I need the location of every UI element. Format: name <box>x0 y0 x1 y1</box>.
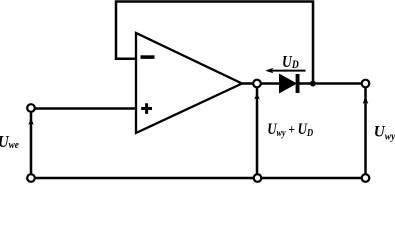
terminal output bottom <box>362 174 370 182</box>
label U_wy + U_D <box>267 121 313 139</box>
terminal input bottom <box>27 174 35 182</box>
U_D voltage arrow <box>265 68 305 74</box>
op-amp triangle body <box>136 33 242 133</box>
label U_wy <box>374 123 395 142</box>
wire op-amp output to diode <box>242 82 280 85</box>
U_wy voltage arrow <box>363 96 369 105</box>
terminal middle bottom <box>254 174 262 182</box>
op-amp <box>136 33 242 133</box>
op-amp output circle <box>253 80 261 88</box>
wire left input vertical <box>30 109 33 179</box>
label U_we <box>0 133 19 151</box>
diode D <box>280 74 300 93</box>
label U_D <box>282 53 299 72</box>
wire feedback left vertical <box>115 1 118 60</box>
svg-text:Uwy + UD: Uwy + UD <box>267 121 313 139</box>
wire diode cathode to output terminal <box>299 82 366 85</box>
U_we voltage arrow <box>28 118 34 125</box>
wire non-inverting input <box>31 107 137 110</box>
inverting input marker (-) <box>141 55 155 59</box>
wire feedback to inverting input <box>115 58 137 61</box>
non-inverting input marker (+) <box>141 103 152 114</box>
wire right output vertical <box>364 84 367 179</box>
terminal input top <box>27 104 35 112</box>
wire feedback top horizontal <box>115 0 314 3</box>
diode anode triangle <box>280 74 297 92</box>
node junction (feedback joins output line) <box>310 81 316 87</box>
terminal output top <box>362 80 370 88</box>
wire middle vertical (output node to bottom rail) <box>256 84 259 179</box>
diode cathode bar <box>296 74 300 93</box>
wire bottom rail <box>31 177 366 180</box>
U_wy+U_D voltage arrow <box>254 93 260 100</box>
wire feedback right vertical <box>312 1 315 84</box>
